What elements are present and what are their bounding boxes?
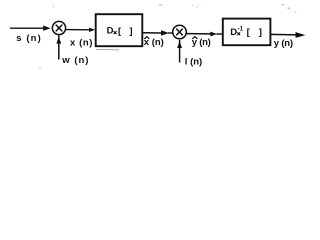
wire arrowhead to M2 [168,32,173,34]
svg-text:]: ] [259,27,262,38]
svg-text:-1: -1 [238,27,244,33]
svg-text:y (n): y (n) [192,37,211,48]
svg-text:[: [ [118,26,122,37]
wire block D to M2 [143,32,162,34]
svg-text:D: D [230,27,237,38]
svg-text:[: [ [247,27,251,38]
wire M1 to block D [66,29,91,31]
block D inverse [223,19,271,46]
arrowhead l(n) [177,41,182,48]
specks above M2 [192,5,193,6]
speck top left [53,6,55,8]
arrowhead into multiplier M1 [43,26,50,31]
arrowhead into M2 [161,30,169,36]
hat over x [144,37,149,39]
arrowhead into block D [89,28,95,32]
wire arrowhead to block D inverse [217,33,224,35]
svg-text:l (n): l (n) [185,56,202,67]
subscript mark of D [114,32,116,34]
svg-text:w (n): w (n) [61,55,89,66]
arrowhead w(n) [56,37,61,44]
M2 X symbol [177,29,183,35]
speck bottom left [39,67,41,69]
multiplier M2 [173,25,187,39]
M1 X symbol [56,25,62,31]
svg-text:x (n): x (n) [70,38,93,49]
block D bottom shadow [96,48,119,51]
svg-text:s (n): s (n) [16,33,42,44]
wire: input s(n) [10,27,45,29]
wire M2 to block D inverse [187,33,212,35]
svg-text:y (n): y (n) [274,38,293,49]
svg-text:]: ] [129,26,132,37]
wire: output y(n) [270,33,297,36]
multiplier M1 [52,21,65,34]
specks top right [282,4,284,5]
svg-text:x (n): x (n) [144,37,164,48]
arrowhead output [296,32,306,38]
svg-text:D: D [107,26,114,37]
speck dash [159,5,163,6]
hat over y [192,37,197,39]
wire w(n) up into M1 [58,36,60,60]
block D [96,14,143,46]
subscript mark of D inverse [238,33,240,35]
wire l(n) up into M2 [179,40,181,63]
arrowhead into block D inverse [210,32,217,37]
